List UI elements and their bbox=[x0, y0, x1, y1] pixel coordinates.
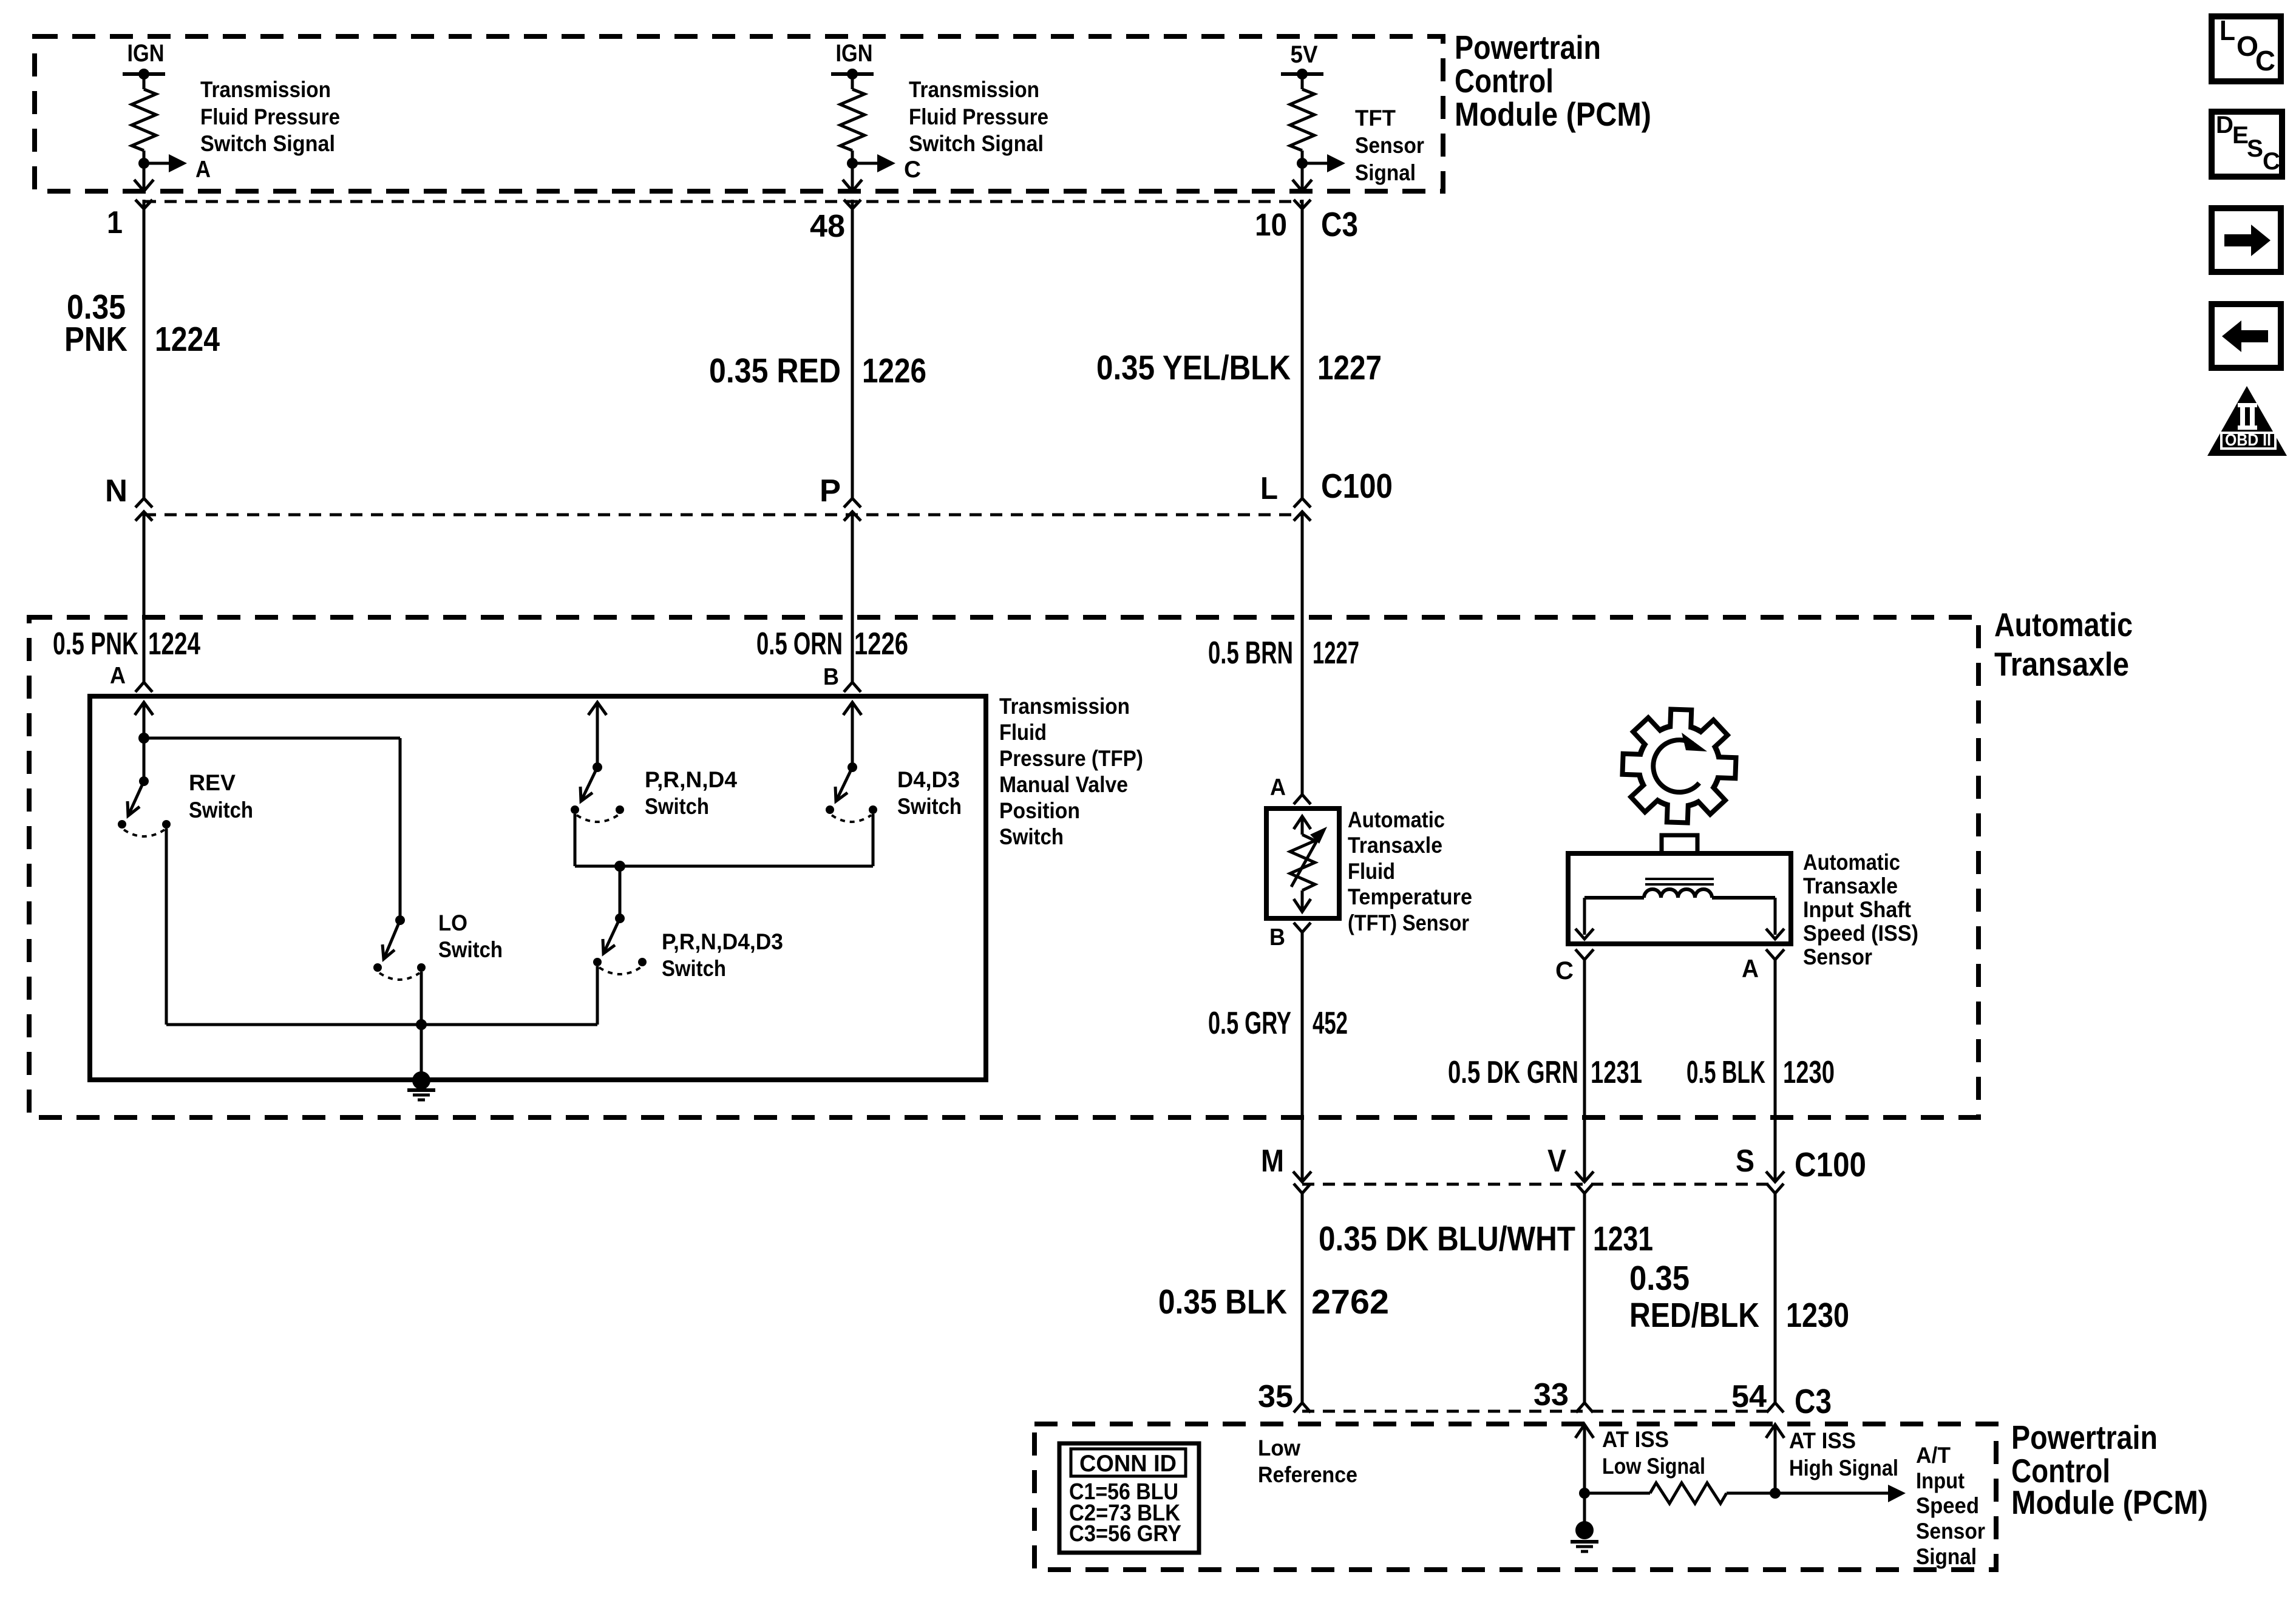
pin letter A (TFT sensor) bbox=[1270, 775, 1286, 801]
svg-text:0.5 PNK: 0.5 PNK bbox=[53, 626, 138, 662]
svg-text:Powertrain: Powertrain bbox=[1455, 29, 1601, 66]
svg-text:Transaxle: Transaxle bbox=[1348, 833, 1442, 858]
svg-text:(TFT) Sensor: (TFT) Sensor bbox=[1348, 910, 1469, 935]
pin number 10 (C3) bbox=[1255, 208, 1287, 243]
arrow entering TFP box interior for P,R,N,D4 branch bbox=[588, 702, 606, 767]
label: Powertrain Control Module (PCM) bottom bbox=[2011, 1419, 2208, 1521]
D4,D3 switch (pivot, arm, contacts) bbox=[826, 762, 877, 822]
pin letter N (C100) bbox=[105, 473, 127, 509]
svg-text:Fluid Pressure: Fluid Pressure bbox=[200, 104, 340, 129]
junction: circuit 3 signal node bbox=[1297, 158, 1308, 169]
svg-text:D: D bbox=[2216, 112, 2233, 138]
resistor: TFT Sensor Signal pull-up (circuit 3) bbox=[1290, 89, 1314, 151]
svg-text:C: C bbox=[2255, 45, 2275, 76]
svg-text:10: 10 bbox=[1255, 208, 1287, 243]
connector fork at TFT pin B bbox=[1294, 923, 1311, 932]
wire: P,R,N,D4 left contact to mid bus bbox=[575, 814, 873, 866]
connector C100 pin V (arrow and fork) bbox=[1575, 1171, 1594, 1193]
svg-text:Input Shaft: Input Shaft bbox=[1803, 897, 1911, 922]
label: 0.5 BRN 1227 (transaxle side) bbox=[1208, 636, 1359, 671]
svg-text:IGN: IGN bbox=[836, 40, 873, 67]
svg-text:N: N bbox=[105, 473, 127, 509]
svg-text:B: B bbox=[1269, 924, 1285, 951]
svg-text:P,R,N,D4,D3: P,R,N,D4,D3 bbox=[662, 929, 783, 954]
wire: P,R,N,D4,D3 left contact to bottom bus bbox=[421, 966, 597, 1025]
PCM (Powertrain Control Module) top dashed box bbox=[35, 36, 1443, 191]
svg-text:1230: 1230 bbox=[1786, 1296, 1849, 1335]
wire: junction down to PCM border with arrow (circuit 1) bbox=[134, 163, 154, 191]
TFT sensor element (thermistor symbol) bbox=[1290, 816, 1327, 912]
svg-text:48: 48 bbox=[810, 209, 845, 244]
svg-text:Fluid Pressure: Fluid Pressure bbox=[909, 104, 1048, 129]
wire: IGN to resistor (circuit 2) bbox=[851, 74, 854, 89]
svg-text:Switch: Switch bbox=[897, 794, 962, 819]
wire: branch to LO switch (horizontal) bbox=[144, 738, 400, 920]
svg-text:2762: 2762 bbox=[1311, 1283, 1389, 1321]
label: LO Switch bbox=[438, 910, 503, 962]
svg-text:Signal: Signal bbox=[1355, 160, 1416, 185]
label: 0.5 GRY 452 bbox=[1208, 1006, 1348, 1041]
wire: LO switch right contact to ground junction bbox=[420, 972, 423, 1025]
icon: rotating gear (input shaft) bbox=[1622, 709, 1736, 822]
REV switch (pivot, arm, contacts) bbox=[118, 738, 171, 836]
connector fork at TFT pin A bbox=[1294, 795, 1311, 804]
label: AT ISS High Signal bbox=[1789, 1428, 1898, 1480]
svg-text:C: C bbox=[1555, 956, 1574, 985]
svg-text:Switch: Switch bbox=[999, 824, 1064, 849]
svg-text:Switch: Switch bbox=[438, 937, 503, 962]
pin letter A (TFP switch) bbox=[110, 663, 126, 689]
svg-text:Sensor: Sensor bbox=[1355, 133, 1424, 158]
pin number 1 (C3) bbox=[107, 205, 123, 240]
svg-text:A: A bbox=[1270, 775, 1286, 801]
connector C100 pin P (fork and chevron) bbox=[844, 498, 861, 521]
label: REV Switch bbox=[189, 770, 253, 822]
label: P,R,N,D4,D3 Switch bbox=[662, 929, 783, 981]
svg-text:S: S bbox=[1736, 1144, 1754, 1179]
svg-text:1224: 1224 bbox=[155, 320, 220, 359]
svg-text:1230: 1230 bbox=[1783, 1055, 1835, 1090]
svg-text:C100: C100 bbox=[1795, 1145, 1866, 1184]
pin letter M (C100 bottom) bbox=[1261, 1144, 1284, 1179]
svg-text:Transmission: Transmission bbox=[999, 694, 1130, 719]
wire: PCM pin 33 entry with arrow bbox=[1575, 1425, 1594, 1493]
svg-text:Switch: Switch bbox=[645, 794, 709, 819]
arrow entering TFP box at A bbox=[135, 702, 153, 738]
connector line C100 (bottom, thin dashed) bbox=[1302, 1183, 1775, 1186]
svg-text:Input: Input bbox=[1916, 1468, 1965, 1493]
label C100 (bottom connector name) bbox=[1795, 1145, 1866, 1184]
svg-text:1227: 1227 bbox=[1313, 636, 1359, 671]
label: 0.5 PNK 1224 (transaxle side) bbox=[53, 626, 200, 662]
resistor: Transmission Fluid Pressure Switch Signal pull-up (circuit 2) bbox=[840, 89, 864, 151]
arrow: signal tap TFT sensor signal (circuit 3) bbox=[1302, 154, 1345, 172]
svg-text:Speed: Speed bbox=[1916, 1493, 1979, 1518]
label: 0.5 ORN 1226 (transaxle side) bbox=[756, 626, 908, 662]
svg-text:Automatic: Automatic bbox=[1994, 606, 2133, 643]
wire 1227: 0.5 BRN, C100 to TFT sensor pin A bbox=[1301, 512, 1304, 795]
pin number 54 (C3 bottom) bbox=[1731, 1379, 1767, 1414]
wire: low node to internal resistor bbox=[1584, 1492, 1650, 1495]
label: Automatic Transaxle bbox=[1994, 606, 2133, 683]
svg-text:Signal: Signal bbox=[1916, 1544, 1977, 1569]
CONN ID table bbox=[1059, 1443, 1199, 1553]
connector C100 pin N (fork and chevron) bbox=[135, 498, 152, 521]
connector C100 pin M (arrow and fork) bbox=[1293, 1171, 1311, 1193]
svg-text:Powertrain: Powertrain bbox=[2011, 1419, 2158, 1456]
svg-text:1226: 1226 bbox=[854, 626, 908, 662]
connector line C3 (bottom, thin dashed) bbox=[1302, 1410, 1775, 1413]
icon: forward arrow box bbox=[2212, 208, 2281, 272]
power node IGN (circuit 1) bbox=[123, 40, 165, 80]
svg-text:OBD II: OBD II bbox=[2225, 430, 2271, 449]
junction: circuit 2 signal node bbox=[847, 158, 858, 169]
svg-text:Transmission: Transmission bbox=[200, 77, 331, 102]
svg-text:Transmission: Transmission bbox=[909, 77, 1039, 102]
svg-text:TFT: TFT bbox=[1355, 106, 1396, 131]
label: Low Reference (PCM pin 35) bbox=[1258, 1436, 1357, 1487]
wire: junction down to PCM border with arrow (circuit 2) bbox=[843, 163, 862, 191]
wire 1226: 0.35 RED, PCM pin 48 to C100 pin P bbox=[851, 209, 854, 498]
svg-text:S: S bbox=[2247, 135, 2263, 162]
P,R,N,D4 switch (pivot, arm, contacts) bbox=[571, 762, 624, 822]
connector C100 pin S (arrow and fork) bbox=[1766, 1171, 1784, 1193]
svg-text:1231: 1231 bbox=[1593, 1219, 1653, 1258]
svg-text:C3=56 GRY: C3=56 GRY bbox=[1069, 1521, 1181, 1547]
svg-text:L: L bbox=[1260, 471, 1278, 506]
wire: ground junction drop bbox=[420, 1025, 423, 1073]
resistor: Transmission Fluid Pressure Switch Signal pull-up (circuit 1) bbox=[132, 89, 156, 151]
arrow entering TFP box at B bbox=[843, 702, 861, 767]
svg-text:A: A bbox=[195, 157, 211, 183]
label: Powertrain Control Module (PCM) top bbox=[1455, 29, 1651, 133]
connector line C3 (top, thin dashed) bbox=[144, 200, 1302, 203]
connector C3 pin 33 fork bbox=[1576, 1403, 1593, 1412]
label: A/T Input Speed Sensor Signal bbox=[1916, 1443, 1985, 1569]
wire 452: 0.5 GRY, TFT pin B to C100 pin M bbox=[1301, 932, 1304, 1171]
svg-text:Fluid: Fluid bbox=[999, 720, 1047, 745]
svg-text:Temperature: Temperature bbox=[1348, 884, 1472, 909]
svg-text:0.5 ORN: 0.5 ORN bbox=[756, 626, 843, 662]
svg-text:Sensor: Sensor bbox=[1803, 944, 1872, 969]
icon: back arrow box bbox=[2212, 304, 2281, 368]
svg-text:High Signal: High Signal bbox=[1789, 1456, 1898, 1480]
wire: junction down to PCM border with arrow (circuit 3) bbox=[1292, 163, 1312, 191]
wire 1224: 0.5 PNK, C100 to TFP switch pin A bbox=[143, 512, 146, 682]
svg-text:0.5 DK GRN: 0.5 DK GRN bbox=[1448, 1055, 1578, 1090]
svg-text:0.5 GRY: 0.5 GRY bbox=[1208, 1006, 1291, 1041]
connector fork at ISS pin A bbox=[1766, 949, 1784, 960]
svg-text:Position: Position bbox=[999, 798, 1080, 823]
LO switch (pivot, arm, contacts) bbox=[373, 915, 426, 980]
label: TFT Sensor Signal (circuit 3) bbox=[1355, 106, 1424, 185]
connector fork at TFP pin A bbox=[135, 682, 152, 692]
svg-text:RED/BLK: RED/BLK bbox=[1629, 1296, 1759, 1335]
svg-text:Automatic: Automatic bbox=[1348, 807, 1445, 832]
svg-text:Automatic: Automatic bbox=[1803, 850, 1900, 875]
pin label A (circuit 1, PCM internal) bbox=[195, 157, 211, 183]
svg-text:1227: 1227 bbox=[1317, 348, 1382, 387]
svg-text:1224: 1224 bbox=[148, 626, 200, 662]
svg-text:0.5 BRN: 0.5 BRN bbox=[1208, 636, 1293, 671]
wire: D4,D3 right contact to mid bus bbox=[872, 814, 875, 866]
label: Transmission Fluid Pressure (TFP) Manual Valve Position Switch bbox=[999, 694, 1143, 849]
svg-text:Module (PCM): Module (PCM) bbox=[1455, 95, 1651, 133]
svg-text:0.35 BLK: 0.35 BLK bbox=[1158, 1283, 1287, 1321]
wire 1231: 0.35 DK BLU/WHT, C100 pin V to PCM pin 33 bbox=[1583, 1193, 1586, 1403]
junction: ground bus node bbox=[416, 1019, 427, 1030]
label: Transmission Fluid Pressure Switch Signal (circuit 1) bbox=[200, 77, 340, 156]
label: P,R,N,D4 Switch bbox=[645, 767, 737, 819]
svg-text:LO: LO bbox=[438, 910, 467, 935]
connector fork at ISS pin C bbox=[1575, 949, 1594, 960]
wire 1227: 0.35 YEL/BLK, PCM pin 10 to C100 pin L bbox=[1301, 209, 1304, 498]
svg-text:54: 54 bbox=[1731, 1379, 1767, 1414]
label: 0.35 BLK 2762 bbox=[1158, 1283, 1389, 1321]
junction: circuit 1 signal node bbox=[138, 158, 149, 169]
svg-text:35: 35 bbox=[1258, 1379, 1293, 1414]
svg-text:Switch: Switch bbox=[662, 956, 726, 981]
label C3 (top connector name) bbox=[1321, 205, 1358, 244]
ground (TFP switch case ground) bbox=[407, 1071, 435, 1100]
svg-text:C100: C100 bbox=[1321, 467, 1393, 506]
connector C3 pin 10 fork bbox=[1294, 200, 1311, 209]
junction: PCM internal low node bbox=[1579, 1488, 1590, 1499]
TFP Manual Valve Position Switch box bbox=[90, 696, 986, 1080]
label: 0.5 DK GRN 1231 bbox=[1448, 1055, 1642, 1090]
junction: REV/LO branch node bbox=[138, 733, 149, 744]
wire: IGN to resistor (circuit 1) bbox=[143, 74, 146, 89]
icon: LOC box bbox=[2212, 15, 2281, 81]
label: Automatic Transaxle Input Shaft Speed (ISS) Sensor bbox=[1803, 850, 1918, 969]
svg-text:P,R,N,D4: P,R,N,D4 bbox=[645, 767, 737, 792]
svg-text:33: 33 bbox=[1533, 1377, 1569, 1412]
svg-text:B: B bbox=[823, 664, 839, 690]
wire: PCM pin 54 entry with arrow bbox=[1766, 1425, 1784, 1493]
wire: ground drop (PCM internal) bbox=[1583, 1493, 1586, 1522]
power node IGN (circuit 2) bbox=[831, 40, 874, 80]
svg-text:Sensor: Sensor bbox=[1916, 1519, 1985, 1544]
svg-text:Fluid: Fluid bbox=[1348, 859, 1395, 884]
svg-text:Switch Signal: Switch Signal bbox=[200, 131, 335, 156]
svg-text:5V: 5V bbox=[1291, 41, 1318, 68]
svg-text:0.35: 0.35 bbox=[1629, 1259, 1690, 1298]
svg-text:1226: 1226 bbox=[862, 351, 926, 390]
connector fork at TFP pin B bbox=[844, 682, 861, 692]
wire: ISS coil to pin A with arrow bbox=[1766, 898, 1784, 939]
junction: PCM internal high node bbox=[1770, 1488, 1781, 1499]
label: 0.5 BLK 1230 bbox=[1686, 1055, 1835, 1090]
wire 1230: 0.5 BLK, ISS pin A to C100 pin S bbox=[1774, 960, 1777, 1171]
svg-text:IGN: IGN bbox=[127, 40, 165, 67]
svg-text:C3: C3 bbox=[1795, 1382, 1832, 1421]
svg-text:0.5 BLK: 0.5 BLK bbox=[1686, 1055, 1765, 1090]
PCM (Powertrain Control Module) bottom dashed box bbox=[1034, 1424, 1996, 1570]
connector C3 pin 1 fork bbox=[135, 200, 152, 209]
svg-text:C: C bbox=[904, 157, 921, 183]
svg-text:E: E bbox=[2232, 122, 2249, 149]
svg-text:PNK: PNK bbox=[64, 320, 127, 359]
connector C3 pin 35 fork bbox=[1294, 1403, 1311, 1412]
svg-text:P: P bbox=[820, 473, 841, 509]
pin number 35 (C3 bottom) bbox=[1258, 1379, 1293, 1414]
label: 0.35 PNK 1224 bbox=[64, 288, 220, 359]
pin letter L (C100) bbox=[1260, 471, 1278, 506]
svg-text:0.35 RED: 0.35 RED bbox=[709, 351, 841, 390]
wire 1230: 0.35 RED/BLK, C100 pin S to PCM pin 54 bbox=[1774, 1193, 1777, 1403]
svg-text:REV: REV bbox=[189, 770, 236, 795]
icon: DESC box bbox=[2212, 112, 2282, 177]
svg-text:A: A bbox=[110, 663, 126, 689]
svg-text:Speed (ISS): Speed (ISS) bbox=[1803, 921, 1918, 946]
pin letter A (ISS sensor) bbox=[1742, 954, 1759, 983]
svg-text:Low Signal: Low Signal bbox=[1602, 1454, 1705, 1479]
svg-text:1231: 1231 bbox=[1591, 1055, 1642, 1090]
connector C100 pin L (fork and chevron) bbox=[1294, 498, 1311, 521]
wire 1224: 0.35 PNK, PCM pin 1 to C100 pin N bbox=[143, 209, 146, 498]
junction: mid bus node bbox=[614, 861, 625, 872]
Automatic Transaxle dashed box bbox=[29, 617, 1978, 1117]
svg-text:Manual Valve: Manual Valve bbox=[999, 772, 1128, 797]
pin number 33 (C3 bottom) bbox=[1533, 1377, 1569, 1412]
P,R,N,D4,D3 switch (pivot, arm, contacts) bbox=[593, 914, 647, 974]
label: 0.35 RED/BLK 1230 bbox=[1629, 1259, 1849, 1335]
label: D4,D3 Switch bbox=[897, 767, 962, 819]
svg-text:0.35 DK BLU/WHT: 0.35 DK BLU/WHT bbox=[1319, 1219, 1575, 1258]
ISS sensor mounting tab bbox=[1662, 835, 1697, 853]
svg-text:Reference: Reference bbox=[1258, 1462, 1357, 1487]
connector line C100 (top, thin dashed) bbox=[144, 514, 1301, 517]
pin letter C (ISS sensor) bbox=[1555, 956, 1574, 985]
svg-text:CONN ID: CONN ID bbox=[1079, 1451, 1177, 1477]
pin number 48 (C3) bbox=[810, 209, 845, 244]
connector C3 pin 54 fork bbox=[1767, 1403, 1784, 1412]
power node 5V (circuit 3) bbox=[1281, 41, 1323, 80]
svg-text:M: M bbox=[1261, 1144, 1284, 1179]
svg-text:AT ISS: AT ISS bbox=[1602, 1427, 1669, 1452]
ground (PCM internal) bbox=[1571, 1521, 1598, 1551]
label: Automatic Transaxle Fluid Temperature (TFT) Sensor bbox=[1348, 807, 1472, 935]
svg-text:Control: Control bbox=[1455, 62, 1554, 100]
svg-text:C: C bbox=[2263, 148, 2280, 175]
svg-text:C3: C3 bbox=[1321, 205, 1358, 244]
svg-text:V: V bbox=[1547, 1144, 1566, 1179]
connector C3 pin 48 fork bbox=[844, 200, 861, 209]
wire: 5V to resistor (circuit 3) bbox=[1301, 74, 1304, 89]
label: AT ISS Low Signal bbox=[1602, 1427, 1705, 1479]
svg-text:AT ISS: AT ISS bbox=[1789, 1428, 1856, 1453]
wire: mid bus to P,R,N,D4,D3 switch bbox=[619, 866, 622, 918]
resistor: PCM internal ISS input bbox=[1650, 1483, 1727, 1503]
TFT sensor box bbox=[1266, 808, 1339, 918]
svg-text:D4,D3: D4,D3 bbox=[897, 767, 960, 792]
svg-text:L: L bbox=[2220, 15, 2235, 46]
pin letter V (C100 bottom) bbox=[1547, 1144, 1566, 1179]
svg-text:452: 452 bbox=[1313, 1006, 1348, 1041]
svg-text:Transaxle: Transaxle bbox=[1803, 873, 1898, 898]
svg-text:Pressure (TFP): Pressure (TFP) bbox=[999, 746, 1143, 771]
label: Transmission Fluid Pressure Switch Signal (circuit 2) bbox=[909, 77, 1048, 156]
arrow: signal tap to pin A (circuit 1) bbox=[144, 154, 187, 172]
pin letter B (TFT sensor) bbox=[1269, 924, 1285, 951]
svg-text:Switch: Switch bbox=[189, 798, 253, 822]
wire: resistor to junction (circuit 3) bbox=[1301, 151, 1304, 163]
pin label C (circuit 2, PCM internal) bbox=[904, 157, 921, 183]
wire 1231: 0.5 DK GRN, ISS pin C to C100 pin V bbox=[1583, 960, 1586, 1171]
label: 0.35 YEL/BLK 1227 bbox=[1096, 348, 1382, 387]
label C3 (bottom connector name) bbox=[1795, 1382, 1832, 1421]
svg-text:0.35 YEL/BLK: 0.35 YEL/BLK bbox=[1096, 348, 1291, 387]
ISS sensor box bbox=[1568, 853, 1791, 944]
wire 1226: 0.5 ORN, C100 to TFP switch pin B bbox=[851, 512, 854, 682]
svg-text:Switch Signal: Switch Signal bbox=[909, 131, 1044, 156]
wire: resistor to junction (circuit 1) bbox=[143, 151, 146, 163]
pin letter S (C100 bottom) bbox=[1736, 1144, 1754, 1179]
svg-text:Transaxle: Transaxle bbox=[1994, 645, 2129, 683]
label C100 (top connector name) bbox=[1321, 467, 1393, 506]
wire: resistor to junction (circuit 2) bbox=[851, 151, 854, 163]
pin letter P (C100) bbox=[820, 473, 841, 509]
wire 2762: 0.35 BLK, C100 pin M to PCM pin 35 bbox=[1301, 1193, 1304, 1403]
svg-text:A/T: A/T bbox=[1916, 1443, 1951, 1468]
svg-text:Low: Low bbox=[1258, 1436, 1300, 1460]
arrow: signal tap to pin C (circuit 2) bbox=[852, 154, 895, 172]
wire: REV switch to bottom bus bbox=[166, 829, 421, 1025]
label: 0.35 RED 1226 bbox=[709, 351, 926, 390]
pin letter B (TFP switch) bbox=[823, 664, 839, 690]
wire + arrow: ISS signal to A/T Input Speed Sensor Signal bbox=[1727, 1485, 1906, 1502]
svg-text:A: A bbox=[1742, 954, 1759, 983]
ISS sensor coil (inductor) bbox=[1584, 889, 1775, 898]
svg-text:1: 1 bbox=[107, 205, 123, 240]
icon: OBD II triangle bbox=[2207, 386, 2287, 456]
svg-text:Module (PCM): Module (PCM) bbox=[2011, 1483, 2208, 1521]
label: 0.35 DK BLU/WHT 1231 bbox=[1319, 1219, 1653, 1258]
ISS sensor core (pole piece lines) bbox=[1645, 879, 1714, 884]
wire: ISS coil to pin C with arrow bbox=[1575, 898, 1594, 939]
